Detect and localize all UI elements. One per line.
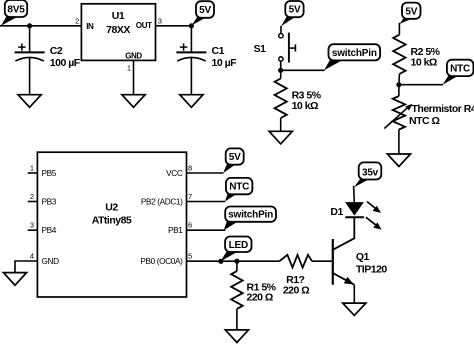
pin 7 wire PB2 — [187, 201, 226, 203]
ground (U1 GND) — [122, 95, 145, 108]
pin 2 stub PB3 — [28, 201, 38, 203]
svg-text:C2: C2 — [50, 45, 63, 57]
wire thermistor to ground — [398, 130, 400, 155]
svg-text:D1: D1 — [330, 206, 343, 218]
net label NTC (PB2) — [225, 178, 252, 202]
svg-text:NTC: NTC — [229, 182, 249, 193]
svg-text:10 kΩ: 10 kΩ — [411, 57, 437, 69]
svg-text:5: 5 — [188, 252, 192, 261]
wire R2 to node D — [398, 74, 401, 85]
transistor Q1 TIP120 — [333, 239, 388, 285]
svg-text:IN: IN — [86, 22, 94, 31]
net label switchPin (PB1) — [224, 207, 276, 231]
resistor R3 5% 10 kΩ — [275, 79, 322, 119]
wire node C to switchPin label — [281, 69, 325, 71]
pin 4 wire GND — [15, 261, 37, 273]
wire 35v to D1 — [353, 186, 356, 203]
svg-text:C1: C1 — [212, 45, 225, 57]
switch S1 — [254, 33, 296, 63]
ground (R1) — [225, 330, 248, 343]
node D (thermistor divider node) — [396, 82, 401, 87]
svg-text:3: 3 — [158, 16, 162, 25]
net label 5V (switch) — [281, 1, 304, 26]
svg-text:LED: LED — [229, 240, 248, 251]
svg-text:VCC: VCC — [166, 168, 183, 178]
svg-text:1: 1 — [127, 64, 131, 73]
svg-text:NTC Ω: NTC Ω — [409, 115, 439, 127]
svg-text:6: 6 — [188, 221, 192, 230]
svg-text:2: 2 — [75, 16, 79, 25]
svg-text:5V: 5V — [229, 152, 241, 163]
wire R1 to ground — [236, 309, 238, 330]
wire R3 to ground — [280, 118, 282, 131]
ground (thermistor) — [387, 154, 410, 167]
capacitor C2 100 µF — [15, 43, 81, 68]
IC U2 ATtiny85 box — [37, 152, 186, 297]
svg-text:PB3: PB3 — [42, 197, 57, 207]
svg-text:PB0 (OC0A): PB0 (OC0A) — [140, 256, 183, 266]
svg-text:5V: 5V — [405, 6, 417, 17]
svg-text:100 µF: 100 µF — [50, 57, 81, 69]
svg-text:220 Ω: 220 Ω — [283, 284, 309, 296]
diode D1 LED — [330, 202, 381, 230]
svg-text:GND: GND — [125, 51, 142, 60]
svg-text:8: 8 — [188, 163, 192, 172]
svg-text:8V5: 8V5 — [7, 4, 25, 15]
svg-text:NTC: NTC — [450, 64, 470, 75]
ground (R3) — [269, 131, 292, 144]
svg-text:PB5: PB5 — [42, 168, 57, 178]
svg-text:TIP120: TIP120 — [356, 264, 388, 276]
svg-text:PB4: PB4 — [42, 225, 57, 235]
wire node D to thermistor — [398, 85, 400, 96]
resistor R1 5% 220 Ω — [231, 271, 277, 309]
net label 5V (VCC) — [223, 148, 244, 173]
ground (C1) — [180, 95, 203, 108]
svg-text:Q1: Q1 — [356, 251, 370, 263]
svg-text:5V: 5V — [289, 5, 301, 16]
svg-text:3: 3 — [30, 221, 34, 230]
wire U1 OUT to 5V node — [156, 25, 192, 27]
net label NTC (divider) — [443, 60, 474, 85]
wire R1? to Q1 base — [312, 260, 332, 262]
ground (U2 GND) — [3, 273, 26, 286]
svg-text:S1: S1 — [254, 43, 267, 55]
ground (Q1) — [343, 303, 366, 315]
node A (input node) — [27, 23, 32, 28]
wire C2 to ground — [29, 58, 31, 95]
ground (C2) — [18, 95, 41, 108]
svg-text:Thermistor R4: Thermistor R4 — [412, 103, 474, 115]
svg-text:PB1: PB1 — [168, 225, 183, 235]
svg-text:10 kΩ: 10 kΩ — [292, 100, 318, 112]
svg-text:7: 7 — [188, 192, 192, 201]
node E (LED/R1 junction) — [234, 259, 239, 264]
net label switchPin — [324, 44, 380, 70]
op-amp U1 box 78XX — [81, 4, 155, 61]
net label 35v — [354, 162, 381, 187]
svg-text:PB2 (ADC1): PB2 (ADC1) — [141, 197, 183, 207]
net label 5V (regulator output) — [191, 1, 214, 25]
resistor R1? 220 Ω (base) — [279, 255, 312, 297]
svg-text:switchPin: switchPin — [228, 210, 273, 221]
svg-text:U2: U2 — [105, 201, 118, 213]
svg-text:GND: GND — [42, 256, 60, 266]
wire 5V to S1 — [280, 26, 282, 34]
wire node D to NTC label — [399, 84, 443, 86]
wire Q1 emitter to ground — [353, 285, 355, 303]
svg-text:35v: 35v — [362, 167, 379, 178]
pin 3 stub PB4 — [28, 229, 38, 231]
svg-text:220 Ω: 220 Ω — [247, 292, 273, 304]
pin 1 stub PB5 — [28, 172, 38, 174]
node B (output node) — [189, 23, 194, 28]
svg-text:4: 4 — [30, 251, 34, 260]
wire 8V5 to U1 IN — [0, 25, 81, 27]
wire node A to C2 — [29, 26, 31, 53]
wire D1 to Q1 collector — [333, 217, 355, 250]
net label 5V (R2 top) — [399, 3, 420, 24]
net label LED (PB0) — [218, 237, 251, 264]
pin 6 wire PB1 — [187, 229, 226, 231]
capacitor C1 10 µF — [176, 43, 237, 68]
wire 5V to R2 — [398, 23, 400, 35]
pin 8 wire VCC — [187, 172, 224, 174]
pin 5 wire PB0 — [187, 260, 280, 262]
wire node E to R1 — [236, 261, 238, 271]
svg-text:5V: 5V — [199, 5, 211, 16]
svg-text:switchPin: switchPin — [332, 48, 377, 59]
wire S1 to node C — [280, 61, 282, 70]
svg-text:U1: U1 — [112, 10, 125, 22]
svg-text:10 µF: 10 µF — [212, 57, 238, 69]
net label 8V5 — [1, 0, 27, 26]
wire U1 GND down — [133, 60, 135, 94]
wire C1 to ground — [190, 58, 192, 95]
svg-text:ATtiny85: ATtiny85 — [92, 215, 132, 227]
svg-text:2: 2 — [30, 192, 34, 201]
svg-text:OUT: OUT — [136, 21, 152, 30]
node C (switch node) — [278, 68, 283, 73]
thermistor R4 NTC — [384, 96, 474, 130]
wire node B to C1 — [190, 26, 192, 53]
wire node C to R3 — [280, 70, 282, 78]
resistor R2 5% 10 kΩ — [393, 35, 440, 74]
svg-text:1: 1 — [30, 163, 34, 172]
svg-text:78XX: 78XX — [106, 24, 130, 36]
